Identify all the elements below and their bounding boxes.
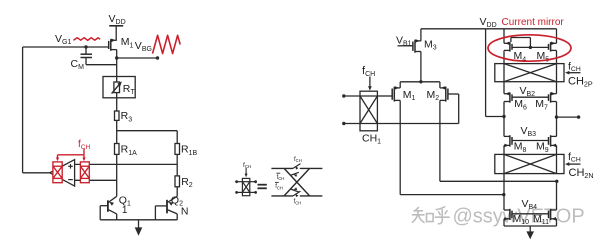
- svg-text:fCH: fCH: [294, 199, 302, 205]
- svg-text:1: 1: [122, 205, 128, 216]
- wire mirror out: [486, 29, 506, 118]
- wire M1 drain: [116, 50, 118, 77]
- transistor M5: [537, 29, 557, 64]
- wire amp output: [23, 172, 50, 174]
- transistor Q2: [155, 187, 188, 220]
- wire mirror gates: [511, 38, 549, 50]
- chopper CH2N: [495, 154, 564, 173]
- ground right: [504, 226, 557, 239]
- resistor R1A: [115, 144, 138, 157]
- node VBG: [115, 40, 159, 60]
- transistor M7: [535, 82, 556, 117]
- transistor M2 right: [427, 86, 448, 102]
- wire amp input1: [75, 154, 178, 176]
- transistor M6: [504, 82, 527, 117]
- resistor R3: [115, 110, 133, 123]
- svg-text:N: N: [181, 206, 189, 218]
- chopper CH2P: [495, 64, 564, 82]
- power VDD right: [421, 16, 557, 29]
- wire M1 drain route: [400, 100, 505, 196]
- ripple wave VBG: [153, 35, 181, 53]
- label fCH CH2N: [565, 151, 594, 180]
- transistor M1 right: [388, 86, 416, 102]
- svg-text:fCH: fCH: [294, 157, 302, 163]
- transistor M11: [533, 181, 557, 226]
- label fCH CH1: [362, 65, 375, 91]
- wire M2 gate: [377, 94, 458, 124]
- label fCH CH2P: [565, 60, 593, 88]
- label current mirror: [502, 17, 565, 28]
- transistor Q1: [100, 194, 131, 219]
- label fCH left: [56, 139, 91, 161]
- watermark: [412, 206, 584, 228]
- resistor R2: [175, 176, 193, 189]
- ground left: [100, 220, 177, 236]
- label VB4: [512, 198, 549, 214]
- transistor M9: [536, 117, 557, 154]
- resistor R1B: [175, 144, 197, 157]
- svg-text:fCH: fCH: [275, 184, 283, 190]
- transistor M4: [504, 29, 526, 64]
- op-amp A1: [50, 160, 75, 187]
- wire diff pair sources: [400, 80, 440, 88]
- label VB2: [512, 85, 549, 98]
- resistor RT: [103, 77, 135, 98]
- node output: [555, 115, 581, 118]
- svg-text:fCH: fCH: [277, 175, 285, 181]
- chopper in: [80, 162, 89, 183]
- wire VG1: [23, 47, 109, 173]
- chopper out: [53, 162, 62, 183]
- wire amp input2: [75, 154, 117, 196]
- ellipse current mirror: [488, 35, 571, 61]
- capacitor CM: [71, 45, 117, 71]
- label VB1: [396, 34, 412, 47]
- transistor M3: [398, 29, 437, 82]
- legend expanded chopper: [271, 157, 322, 205]
- legend equals: [258, 185, 267, 189]
- wire CH1 top out: [377, 95, 387, 97]
- transistor M1: [109, 36, 134, 51]
- label VB3: [512, 125, 549, 141]
- power VDD left: [109, 13, 126, 40]
- wire M2 drain route: [440, 100, 559, 183]
- svg-text:Current mirror: Current mirror: [502, 17, 565, 28]
- chopper CH1: [342, 91, 381, 146]
- wire RT-R3: [116, 98, 118, 111]
- legend chopper symbol: [235, 162, 257, 196]
- transistor M8: [504, 117, 527, 155]
- transistor M10: [504, 174, 529, 226]
- label VG1: [55, 33, 71, 46]
- wire node A: [117, 120, 178, 143]
- noise wave VG1: [74, 38, 101, 41]
